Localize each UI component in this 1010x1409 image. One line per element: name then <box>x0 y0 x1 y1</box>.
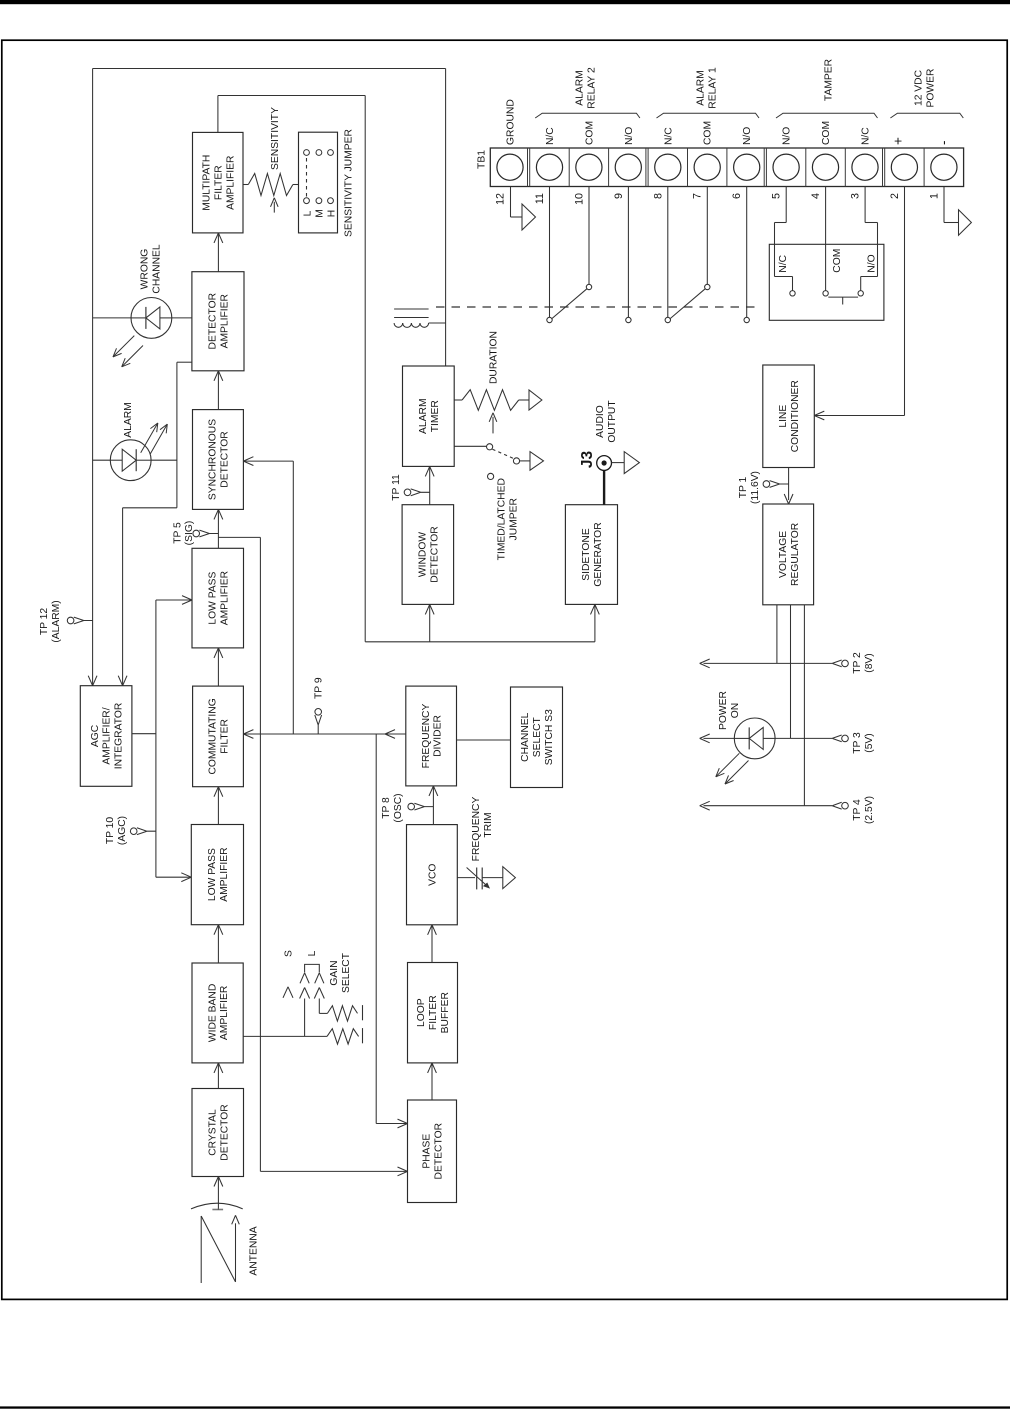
potentiometer sensitivity <box>243 184 248 186</box>
svg-text:N/C: N/C <box>778 254 789 272</box>
terminal 4 screw <box>812 154 838 180</box>
channel select switch S3 block <box>511 687 563 788</box>
svg-text:CHANNEL: CHANNEL <box>152 244 163 293</box>
page footer rule <box>0 1406 1010 1408</box>
svg-text:+: + <box>890 137 905 145</box>
page header bar <box>0 0 1010 4</box>
svg-text:COM: COM <box>584 121 595 145</box>
svg-text:WIDE BAND: WIDE BAND <box>207 984 218 1042</box>
svg-text:SENSITIVITY: SENSITIVITY <box>270 107 281 170</box>
wire wide band amplifier to low pass amplifier <box>217 925 219 963</box>
svg-text:M: M <box>315 209 326 218</box>
svg-text:JUMPER: JUMPER <box>509 498 520 540</box>
terminal 12 screw <box>497 154 523 180</box>
ground symbol terminal 1 <box>943 187 945 223</box>
svg-text:TP 12: TP 12 <box>39 608 50 636</box>
wire line conditioner to voltage regulator <box>788 468 790 501</box>
voltage regulator block <box>763 504 814 605</box>
svg-text:TIMER: TIMER <box>430 400 441 432</box>
svg-text:(8V): (8V) <box>864 653 875 672</box>
svg-text:FILTER: FILTER <box>428 995 439 1030</box>
wire alarm-timer feedback top rail (node FB) <box>445 69 447 367</box>
svg-text:VOLTAGE: VOLTAGE <box>778 531 789 578</box>
rail TP3 5V <box>775 737 832 739</box>
svg-text:ALARM: ALARM <box>418 398 429 433</box>
svg-text:ANTENNA: ANTENNA <box>249 1226 260 1275</box>
svg-text:CRYSTAL: CRYSTAL <box>207 1109 218 1156</box>
tamper switch lever <box>828 296 858 298</box>
svg-text:GAIN: GAIN <box>329 960 340 985</box>
svg-text:WINDOW: WINDOW <box>418 532 429 577</box>
svg-text:AMPLIFIER: AMPLIFIER <box>219 986 230 1040</box>
off-page arrow frequency trim <box>503 867 516 889</box>
svg-text:(OSC): (OSC) <box>393 793 404 822</box>
svg-text:DETECTOR: DETECTOR <box>220 431 231 487</box>
test point TP3 <box>832 735 848 742</box>
svg-text:(2.5V): (2.5V) <box>864 796 875 824</box>
svg-text:SELECT: SELECT <box>341 952 352 993</box>
tamper switch box <box>769 244 884 320</box>
svg-text:DURATION: DURATION <box>489 331 500 384</box>
off-page arrow audio output <box>624 452 639 474</box>
test point TP9 <box>315 709 322 735</box>
svg-text:DETECTOR: DETECTOR <box>208 293 219 349</box>
wire terminal 2 to line conditioner <box>904 187 906 416</box>
svg-text:ALARM: ALARM <box>123 402 134 437</box>
svg-text:ALARM: ALARM <box>575 70 586 105</box>
wire branch to phase detector input A <box>375 734 377 1124</box>
svg-text:N/O: N/O <box>624 127 635 145</box>
wire loop filter buffer to VCO <box>431 925 433 963</box>
svg-text:COM: COM <box>703 121 714 145</box>
wire crystal detector to wide band amplifier <box>217 1063 219 1089</box>
relay 1 lever <box>670 289 705 319</box>
test point TP4 <box>832 802 848 809</box>
brace alarm relay 1 <box>657 113 760 118</box>
svg-text:COM: COM <box>821 121 832 145</box>
wire terminal 5 to tamper <box>785 187 787 223</box>
voltage regulator output rails <box>776 605 778 664</box>
svg-text:LOW PASS: LOW PASS <box>207 571 218 624</box>
svg-text:TP 5: TP 5 <box>173 522 184 544</box>
brace 12 vdc power <box>890 113 963 118</box>
wire synchronous detector to detector amplifier <box>217 371 219 410</box>
test point TP10 <box>130 828 156 835</box>
relay coil <box>394 317 429 319</box>
wire detector amplifier to multipath filter amplifier <box>217 233 219 272</box>
svg-text:PHASE: PHASE <box>422 1134 433 1169</box>
svg-text:TB1: TB1 <box>477 150 488 169</box>
svg-text:N/C: N/C <box>663 127 674 145</box>
LED wrong channel indicator <box>131 298 172 339</box>
terminal 9 screw <box>615 154 641 180</box>
timed/latched jumper <box>454 445 486 447</box>
svg-text:L: L <box>302 210 313 216</box>
LED power on indicator <box>734 718 775 759</box>
svg-text:TP 4: TP 4 <box>852 799 863 821</box>
alarm LED light rays <box>141 423 158 453</box>
rail TP2 8V <box>704 662 833 664</box>
sensitivity jumper block <box>299 132 338 233</box>
synchronous detector block <box>193 410 244 510</box>
low pass amplifier block 1 <box>191 825 243 925</box>
gain select pins <box>304 999 306 1037</box>
svg-text:DETECTOR: DETECTOR <box>434 1123 445 1179</box>
wire wide band amplifier gain tap <box>243 1035 327 1037</box>
off-page arrow timed/latched <box>530 452 544 471</box>
relay actuation dashed link <box>436 306 755 308</box>
wire detector amplifier to AGC path <box>177 361 192 363</box>
svg-text:LOOP: LOOP <box>416 998 427 1027</box>
potentiometer duration <box>454 399 462 401</box>
line conditioner block <box>763 365 815 468</box>
svg-text:FREQUENCY: FREQUENCY <box>421 704 432 769</box>
svg-text:TRIM: TRIM <box>483 812 494 837</box>
svg-text:ALARM: ALARM <box>696 70 707 105</box>
detector amplifier block <box>192 272 244 371</box>
svg-text:WRONG: WRONG <box>140 249 151 290</box>
wire to sidetone generator <box>594 604 596 641</box>
svg-text:DETECTOR: DETECTOR <box>429 526 440 582</box>
svg-text:GROUND: GROUND <box>506 99 517 145</box>
svg-text:POWER: POWER <box>926 69 937 108</box>
svg-text:3: 3 <box>850 193 862 199</box>
power LED light rays <box>716 753 740 777</box>
low pass amplifier block 2 <box>192 548 244 648</box>
relay 2 lever <box>552 289 587 319</box>
rail TP4 2.5V <box>704 805 833 807</box>
wide band amplifier block <box>192 963 243 1063</box>
svg-text:N/C: N/C <box>861 127 872 145</box>
varactor frequency trim <box>457 877 475 879</box>
wire terminal 3 to tamper <box>864 187 866 223</box>
terminal 8 screw <box>655 154 681 180</box>
svg-text:FREQUENCY: FREQUENCY <box>471 797 482 862</box>
svg-text:5: 5 <box>771 193 783 199</box>
svg-text:L: L <box>307 950 318 956</box>
svg-text:CONDITIONER: CONDITIONER <box>790 380 801 452</box>
svg-text:TP 9: TP 9 <box>314 677 325 699</box>
svg-text:H: H <box>326 210 337 217</box>
svg-text:SWITCH S3: SWITCH S3 <box>544 709 555 765</box>
terminal 7 screw <box>694 154 720 180</box>
test point TP2 <box>832 660 848 667</box>
test point TP1 <box>763 481 789 488</box>
antenna <box>200 1216 202 1283</box>
test point TP12 <box>67 617 93 624</box>
wire alarm LED branch <box>93 459 111 461</box>
svg-text:10: 10 <box>573 193 585 205</box>
svg-text:AMPLIFIER: AMPLIFIER <box>220 294 231 348</box>
svg-text:AMPLIFIER: AMPLIFIER <box>219 571 230 625</box>
svg-text:AMPLIFIER: AMPLIFIER <box>225 156 236 210</box>
multipath filter amplifier block <box>193 132 244 233</box>
wire wrong channel LED branch <box>93 317 131 319</box>
svg-text:11: 11 <box>534 193 546 204</box>
wire VCO to frequency divider <box>432 786 434 825</box>
svg-text:(11.6V): (11.6V) <box>750 471 761 504</box>
relay 2 contacts <box>549 187 551 318</box>
wire antenna to crystal detector <box>217 1177 219 1210</box>
AGC amplifier/integrator block <box>80 686 132 787</box>
frequency divider block <box>406 686 457 786</box>
wire feedback to AGC input <box>92 69 94 686</box>
svg-text:6: 6 <box>731 193 743 199</box>
wire window detector to alarm timer <box>429 466 431 504</box>
svg-text:12: 12 <box>495 193 507 205</box>
wire AGC to low pass amplifier 1 <box>156 876 191 878</box>
svg-text:(SIG): (SIG) <box>184 521 195 546</box>
VCO block <box>407 825 458 925</box>
wire AGC to low pass amplifier 2 <box>156 599 192 601</box>
wire AGC output distribution <box>132 733 156 735</box>
svg-text:SYNCHRONOUS: SYNCHRONOUS <box>208 419 219 500</box>
terminal 1 screw <box>931 154 957 180</box>
svg-text:MULTIPATH: MULTIPATH <box>202 155 213 211</box>
wire low pass amplifier to commutating filter <box>217 787 219 825</box>
window detector block <box>402 505 454 605</box>
wire terminal 4 to tamper <box>825 187 827 291</box>
wire frequency divider to channel select switch <box>457 739 511 741</box>
svg-text:(ALARM): (ALARM) <box>51 600 62 642</box>
loop filter buffer block <box>408 963 458 1063</box>
wire to window detector <box>429 604 431 641</box>
svg-text:TP 3: TP 3 <box>852 732 863 754</box>
terminal 11 screw <box>536 154 562 180</box>
wire low pass amplifier 2 to synchronous detector <box>217 509 219 548</box>
svg-text:FILTER: FILTER <box>220 719 231 754</box>
wire synchronous detector reference input <box>243 460 293 462</box>
svg-text:REGULATOR: REGULATOR <box>790 523 801 586</box>
terminal 2 screw <box>891 154 917 180</box>
svg-text:TP 1: TP 1 <box>738 476 749 498</box>
svg-text:2: 2 <box>889 193 901 199</box>
crystal detector block <box>192 1089 244 1177</box>
svg-text:AMPLIFIER/: AMPLIFIER/ <box>102 707 113 764</box>
svg-text:COMMUTATING: COMMUTATING <box>208 698 219 774</box>
svg-text:7: 7 <box>692 193 704 199</box>
svg-text:SELECT: SELECT <box>532 716 543 757</box>
svg-text:BUFFER: BUFFER <box>440 992 451 1033</box>
svg-text:SENSITIVITY JUMPER: SENSITIVITY JUMPER <box>344 129 355 237</box>
svg-text:COM: COM <box>832 249 843 273</box>
test point TP11 <box>404 489 430 496</box>
terminal 10 screw <box>576 154 602 180</box>
svg-text:1: 1 <box>928 193 940 199</box>
wire multipath output loop <box>217 96 219 133</box>
svg-text:RELAY 1: RELAY 1 <box>708 67 719 109</box>
svg-text:LINE: LINE <box>778 405 789 428</box>
svg-text:VCO: VCO <box>428 864 439 886</box>
connector J3 audio jack <box>603 470 605 504</box>
svg-text:4: 4 <box>810 193 822 199</box>
resistor gain select low <box>327 1029 359 1044</box>
svg-text:N/O: N/O <box>867 254 878 272</box>
svg-text:FILTER: FILTER <box>213 165 224 200</box>
svg-text:SIDETONE: SIDETONE <box>581 528 592 581</box>
relay 1 contacts <box>667 187 669 318</box>
svg-text:(5V): (5V) <box>864 733 875 752</box>
svg-text:TP 8: TP 8 <box>381 797 392 819</box>
wire frequency divider to commutating filter <box>243 733 405 735</box>
terminal 5 screw <box>773 154 799 180</box>
svg-text:N/O: N/O <box>742 127 753 145</box>
svg-text:OUTPUT: OUTPUT <box>607 400 618 443</box>
off-page arrow duration <box>529 390 542 410</box>
svg-text:S: S <box>284 950 295 957</box>
svg-text:TIMED/LATCHED: TIMED/LATCHED <box>497 478 508 560</box>
sidetone generator block <box>565 505 617 605</box>
terminal 6 screw <box>734 154 760 180</box>
svg-text:TP 10: TP 10 <box>105 817 116 845</box>
test point TP5 <box>193 530 219 537</box>
svg-text:9: 9 <box>613 193 625 199</box>
svg-text:(AGC): (AGC) <box>117 816 128 845</box>
svg-text:LOW PASS: LOW PASS <box>207 848 218 901</box>
wire tap to phase detector input B <box>218 536 260 538</box>
brace alarm relay 2 <box>535 113 640 118</box>
svg-text:ON: ON <box>730 703 741 718</box>
LED alarm indicator <box>110 440 151 481</box>
svg-text:8: 8 <box>652 193 664 199</box>
svg-text:AGC: AGC <box>90 724 101 747</box>
gain select jumper cap <box>305 973 310 984</box>
terminal 3 screw <box>852 154 878 180</box>
svg-text:N/C: N/C <box>545 127 556 145</box>
svg-text:-: - <box>936 141 951 146</box>
wire phase detector to loop filter buffer <box>431 1063 433 1100</box>
svg-text:TP 2: TP 2 <box>852 652 863 674</box>
svg-text:AUDIO: AUDIO <box>595 405 606 438</box>
ground symbol terminal 12 <box>510 187 512 218</box>
svg-text:CHANNEL: CHANNEL <box>520 712 531 761</box>
svg-text:J3: J3 <box>579 451 596 469</box>
svg-text:AMPLIFIER: AMPLIFIER <box>219 847 230 901</box>
brace tamper <box>776 113 878 118</box>
phase detector block <box>408 1100 457 1203</box>
svg-text:RELAY 2: RELAY 2 <box>587 67 598 109</box>
sensitivity jumper selected link <box>306 157 308 197</box>
svg-text:POWER: POWER <box>718 691 729 730</box>
svg-text:N/O: N/O <box>782 127 793 145</box>
svg-text:TP 11: TP 11 <box>391 474 402 501</box>
resistor gain select high <box>327 1006 357 1021</box>
svg-text:GENERATOR: GENERATOR <box>593 522 604 586</box>
svg-text:DETECTOR: DETECTOR <box>219 1104 230 1160</box>
alarm timer block <box>403 366 455 466</box>
commutating filter block <box>193 686 244 787</box>
wrong channel LED light rays <box>113 336 134 357</box>
wire window detector output tap <box>429 504 431 506</box>
svg-text:INTEGRATOR: INTEGRATOR <box>114 703 125 770</box>
ground triangle 12 <box>522 204 536 230</box>
svg-text:12 VDC: 12 VDC <box>914 69 925 106</box>
test point TP8 <box>408 803 434 810</box>
wire commutating filter to low pass amplifier 2 <box>217 648 219 686</box>
ground triangle 1 <box>959 210 972 236</box>
svg-text:TAMPER: TAMPER <box>824 59 835 101</box>
svg-text:DIVIDER: DIVIDER <box>433 715 444 757</box>
terminal strip TB1 <box>490 148 963 187</box>
